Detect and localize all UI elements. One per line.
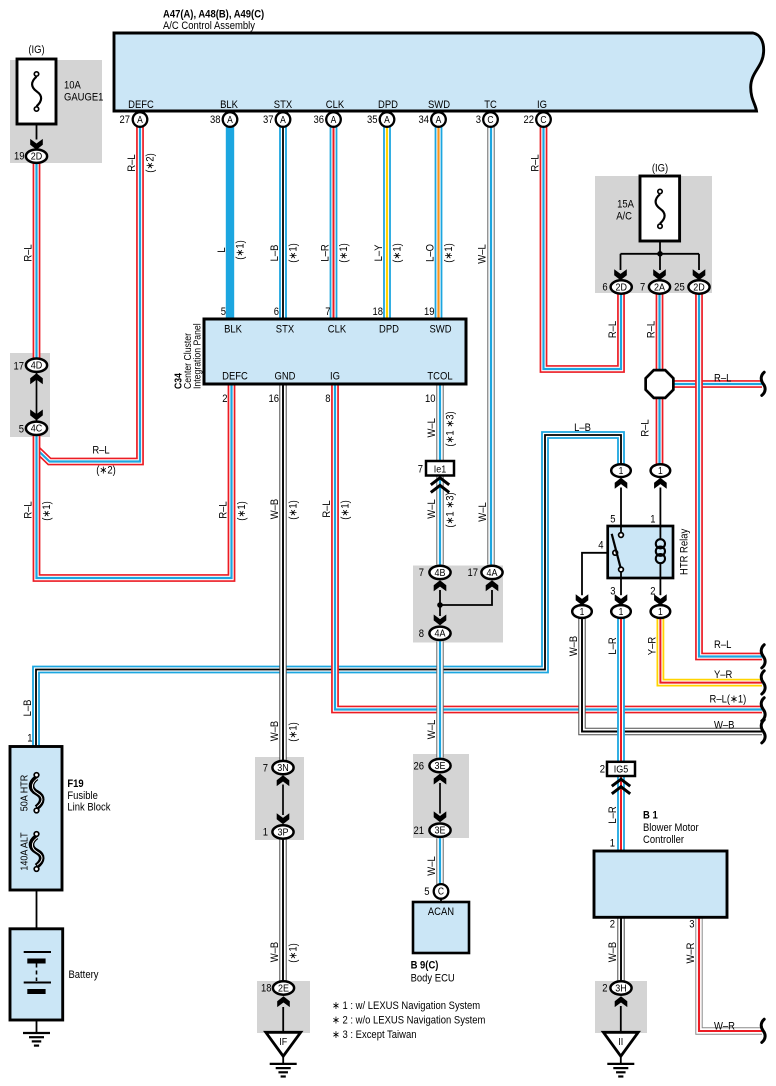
svg-text:Blower Motor: Blower Motor bbox=[643, 822, 699, 834]
svg-text:3N: 3N bbox=[277, 762, 288, 774]
svg-text:Fusible: Fusible bbox=[67, 790, 98, 802]
svg-text:1: 1 bbox=[619, 465, 624, 476]
svg-text:A: A bbox=[137, 114, 143, 125]
svg-text:L–Y: L–Y bbox=[373, 244, 385, 261]
svg-text:Body ECU: Body ECU bbox=[411, 973, 455, 985]
svg-text:STX: STX bbox=[274, 99, 293, 111]
svg-text:(∗1 ∗3): (∗1 ∗3) bbox=[445, 492, 457, 527]
svg-text:W–L: W–L bbox=[426, 856, 438, 876]
svg-text:CLK: CLK bbox=[328, 324, 347, 336]
svg-text:Link Block: Link Block bbox=[67, 802, 111, 814]
svg-text:W–B: W–B bbox=[568, 636, 580, 657]
svg-text:(∗2): (∗2) bbox=[96, 465, 115, 477]
svg-text:2: 2 bbox=[650, 586, 656, 598]
svg-text:Y–R: Y–R bbox=[647, 637, 659, 655]
svg-text:1: 1 bbox=[580, 606, 585, 617]
svg-text:10: 10 bbox=[425, 393, 436, 405]
svg-text:L–R: L–R bbox=[607, 637, 619, 654]
svg-text:DEFC: DEFC bbox=[222, 371, 248, 383]
svg-text:50A HTR: 50A HTR bbox=[19, 775, 31, 811]
svg-text:W–B: W–B bbox=[269, 499, 281, 520]
svg-text:2: 2 bbox=[602, 983, 608, 995]
svg-text:L–B: L–B bbox=[22, 699, 34, 716]
svg-text:17: 17 bbox=[467, 568, 478, 580]
svg-text:4B: 4B bbox=[435, 567, 446, 579]
svg-text:(∗1): (∗1) bbox=[41, 501, 53, 520]
svg-text:1: 1 bbox=[610, 838, 616, 850]
svg-text:19: 19 bbox=[424, 306, 435, 318]
svg-text:SWD: SWD bbox=[429, 324, 451, 336]
svg-text:∗ 2 : w/o LEXUS Navigation Sys: ∗ 2 : w/o LEXUS Navigation System bbox=[332, 1015, 485, 1027]
svg-text:∗ 1 : w/ LEXUS Navigation Syst: ∗ 1 : w/ LEXUS Navigation System bbox=[332, 1000, 480, 1012]
svg-text:W–B: W–B bbox=[607, 942, 619, 963]
svg-text:A/C Control Assembly: A/C Control Assembly bbox=[163, 20, 256, 32]
svg-text:34: 34 bbox=[418, 115, 429, 127]
svg-text:F19: F19 bbox=[67, 778, 84, 790]
svg-text:IG5: IG5 bbox=[614, 764, 628, 776]
svg-text:B 9(C): B 9(C) bbox=[411, 960, 439, 972]
svg-text:7: 7 bbox=[263, 763, 269, 775]
svg-text:A: A bbox=[436, 114, 442, 125]
svg-text:A: A bbox=[280, 114, 286, 125]
svg-text:26: 26 bbox=[413, 761, 424, 773]
svg-text:W–B: W–B bbox=[714, 720, 735, 732]
svg-text:GND: GND bbox=[274, 371, 295, 383]
svg-text:W–L: W–L bbox=[426, 418, 438, 438]
svg-text:3E: 3E bbox=[435, 760, 446, 772]
svg-text:(∗1): (∗1) bbox=[340, 500, 352, 519]
svg-text:STX: STX bbox=[276, 324, 295, 336]
svg-text:C: C bbox=[540, 114, 546, 125]
svg-text:(∗1 ∗3): (∗1 ∗3) bbox=[445, 411, 457, 446]
svg-text:IG: IG bbox=[537, 99, 547, 111]
svg-text:6: 6 bbox=[602, 282, 608, 294]
svg-text:W–L: W–L bbox=[426, 499, 438, 519]
svg-text:A: A bbox=[227, 114, 233, 125]
svg-text:2D: 2D bbox=[615, 282, 626, 294]
svg-text:W–B: W–B bbox=[269, 721, 281, 742]
svg-text:7: 7 bbox=[325, 306, 331, 318]
svg-text:R–L: R–L bbox=[646, 321, 658, 339]
svg-text:1: 1 bbox=[658, 606, 663, 617]
svg-text:W–R: W–R bbox=[685, 942, 697, 963]
svg-text:22: 22 bbox=[523, 115, 534, 127]
svg-text:10A: 10A bbox=[64, 80, 81, 92]
svg-text:5: 5 bbox=[610, 514, 616, 526]
svg-text:R–L: R–L bbox=[714, 373, 732, 385]
svg-text:W–L: W–L bbox=[477, 244, 489, 264]
svg-text:DEFC: DEFC bbox=[128, 99, 154, 111]
svg-text:(∗1): (∗1) bbox=[392, 243, 404, 262]
svg-text:6: 6 bbox=[274, 306, 280, 318]
svg-text:W–L: W–L bbox=[477, 502, 489, 522]
svg-text:38: 38 bbox=[210, 115, 221, 127]
svg-text:W–R: W–R bbox=[714, 1021, 735, 1033]
svg-text:18: 18 bbox=[372, 306, 383, 318]
svg-text:16: 16 bbox=[268, 393, 279, 405]
svg-text:15A: 15A bbox=[617, 199, 634, 211]
svg-text:Battery: Battery bbox=[69, 969, 100, 981]
svg-text:2: 2 bbox=[600, 764, 606, 776]
svg-text:L–R: L–R bbox=[320, 244, 332, 261]
svg-text:W–L: W–L bbox=[426, 720, 438, 740]
svg-text:(∗1): (∗1) bbox=[288, 722, 300, 741]
svg-text:3: 3 bbox=[476, 115, 482, 127]
svg-text:21: 21 bbox=[413, 825, 424, 837]
svg-text:1: 1 bbox=[27, 733, 33, 745]
svg-text:8: 8 bbox=[419, 628, 425, 640]
svg-text:3P: 3P bbox=[278, 827, 289, 839]
svg-text:(∗1): (∗1) bbox=[288, 500, 300, 519]
svg-text:L: L bbox=[216, 247, 228, 253]
svg-text:3: 3 bbox=[610, 586, 616, 598]
svg-text:Y–R: Y–R bbox=[714, 669, 732, 681]
svg-text:2E: 2E bbox=[278, 983, 289, 995]
svg-text:18: 18 bbox=[261, 983, 272, 995]
svg-text:4C: 4C bbox=[31, 423, 42, 435]
svg-text:(∗1): (∗1) bbox=[235, 240, 247, 259]
svg-text:(∗1): (∗1) bbox=[338, 243, 350, 262]
svg-text:19: 19 bbox=[14, 151, 25, 163]
svg-text:L–R: L–R bbox=[607, 806, 619, 823]
svg-text:(∗2): (∗2) bbox=[145, 153, 157, 172]
svg-text:∗ 3 : Except Taiwan: ∗ 3 : Except Taiwan bbox=[332, 1029, 417, 1041]
svg-text:SWD: SWD bbox=[428, 99, 450, 111]
svg-text:R–L: R–L bbox=[607, 321, 619, 339]
svg-text:W–B: W–B bbox=[269, 942, 281, 963]
svg-text:BLK: BLK bbox=[220, 99, 238, 111]
svg-text:4D: 4D bbox=[31, 360, 42, 372]
svg-text:R–L: R–L bbox=[92, 445, 110, 457]
svg-text:4: 4 bbox=[598, 540, 604, 552]
svg-text:1: 1 bbox=[650, 514, 656, 526]
svg-text:R–L: R–L bbox=[218, 501, 230, 519]
svg-text:5: 5 bbox=[19, 424, 25, 436]
svg-text:DPD: DPD bbox=[378, 99, 398, 111]
svg-text:Controller: Controller bbox=[643, 834, 685, 846]
svg-text:C: C bbox=[438, 886, 444, 897]
svg-text:25: 25 bbox=[674, 282, 685, 294]
svg-text:140A ALT: 140A ALT bbox=[19, 832, 31, 870]
svg-text:R–L(∗1): R–L(∗1) bbox=[710, 694, 747, 706]
svg-text:A/C: A/C bbox=[616, 211, 632, 223]
svg-text:L–O: L–O bbox=[425, 244, 437, 262]
svg-text:R–L: R–L bbox=[640, 419, 652, 437]
svg-text:II: II bbox=[618, 1036, 623, 1048]
svg-text:L–B: L–B bbox=[574, 422, 591, 434]
svg-text:4A: 4A bbox=[435, 628, 446, 640]
svg-text:TCOL: TCOL bbox=[427, 371, 452, 383]
svg-text:2: 2 bbox=[610, 919, 616, 931]
svg-text:5: 5 bbox=[221, 306, 227, 318]
svg-text:L–B: L–B bbox=[269, 244, 281, 261]
svg-text:5: 5 bbox=[424, 887, 430, 899]
svg-text:ACAN: ACAN bbox=[428, 906, 454, 918]
svg-text:3: 3 bbox=[689, 919, 695, 931]
svg-text:B 1: B 1 bbox=[643, 810, 658, 822]
svg-text:TC: TC bbox=[484, 99, 497, 111]
svg-text:R–L: R–L bbox=[23, 244, 35, 262]
svg-text:2D: 2D bbox=[693, 282, 704, 294]
svg-text:Integration Panel: Integration Panel bbox=[191, 323, 203, 389]
svg-text:DPD: DPD bbox=[379, 324, 399, 336]
svg-text:R–L: R–L bbox=[126, 154, 138, 172]
svg-text:A: A bbox=[331, 114, 337, 125]
svg-text:(IG): (IG) bbox=[652, 163, 668, 175]
svg-text:(∗1): (∗1) bbox=[288, 243, 300, 262]
svg-text:R–L: R–L bbox=[321, 500, 333, 518]
svg-text:A: A bbox=[384, 114, 390, 125]
svg-text:8: 8 bbox=[325, 393, 331, 405]
svg-text:35: 35 bbox=[367, 115, 378, 127]
svg-text:3H: 3H bbox=[615, 983, 626, 995]
svg-text:7: 7 bbox=[419, 568, 425, 580]
svg-text:1: 1 bbox=[263, 827, 269, 839]
svg-text:R–L: R–L bbox=[714, 639, 732, 651]
svg-text:BLK: BLK bbox=[224, 324, 242, 336]
svg-text:(IG): (IG) bbox=[28, 44, 44, 56]
svg-text:37: 37 bbox=[263, 115, 274, 127]
svg-text:2D: 2D bbox=[31, 151, 42, 163]
svg-text:R–L: R–L bbox=[23, 501, 35, 519]
svg-text:27: 27 bbox=[119, 115, 130, 127]
svg-text:IF: IF bbox=[279, 1036, 287, 1048]
svg-text:17: 17 bbox=[13, 361, 24, 373]
svg-text:3E: 3E bbox=[435, 825, 446, 837]
svg-text:1: 1 bbox=[619, 606, 624, 617]
svg-text:CLK: CLK bbox=[326, 99, 345, 111]
svg-text:(∗1): (∗1) bbox=[236, 501, 248, 520]
svg-text:(∗1): (∗1) bbox=[443, 243, 455, 262]
svg-text:2: 2 bbox=[222, 393, 228, 405]
svg-text:IG: IG bbox=[330, 371, 340, 383]
svg-text:1: 1 bbox=[658, 465, 663, 476]
svg-text:7: 7 bbox=[640, 282, 646, 294]
svg-text:R–L: R–L bbox=[530, 154, 542, 172]
svg-text:A47(A), A48(B), A49(C): A47(A), A48(B), A49(C) bbox=[163, 9, 264, 21]
svg-text:C: C bbox=[487, 114, 493, 125]
svg-text:36: 36 bbox=[313, 115, 324, 127]
svg-text:Ie1: Ie1 bbox=[434, 464, 446, 476]
svg-text:7: 7 bbox=[418, 464, 424, 476]
svg-text:(∗1): (∗1) bbox=[288, 943, 300, 962]
svg-text:2A: 2A bbox=[654, 282, 665, 294]
svg-text:HTR Relay: HTR Relay bbox=[679, 528, 691, 575]
svg-text:GAUGE1: GAUGE1 bbox=[64, 92, 104, 104]
svg-text:4A: 4A bbox=[487, 567, 498, 579]
